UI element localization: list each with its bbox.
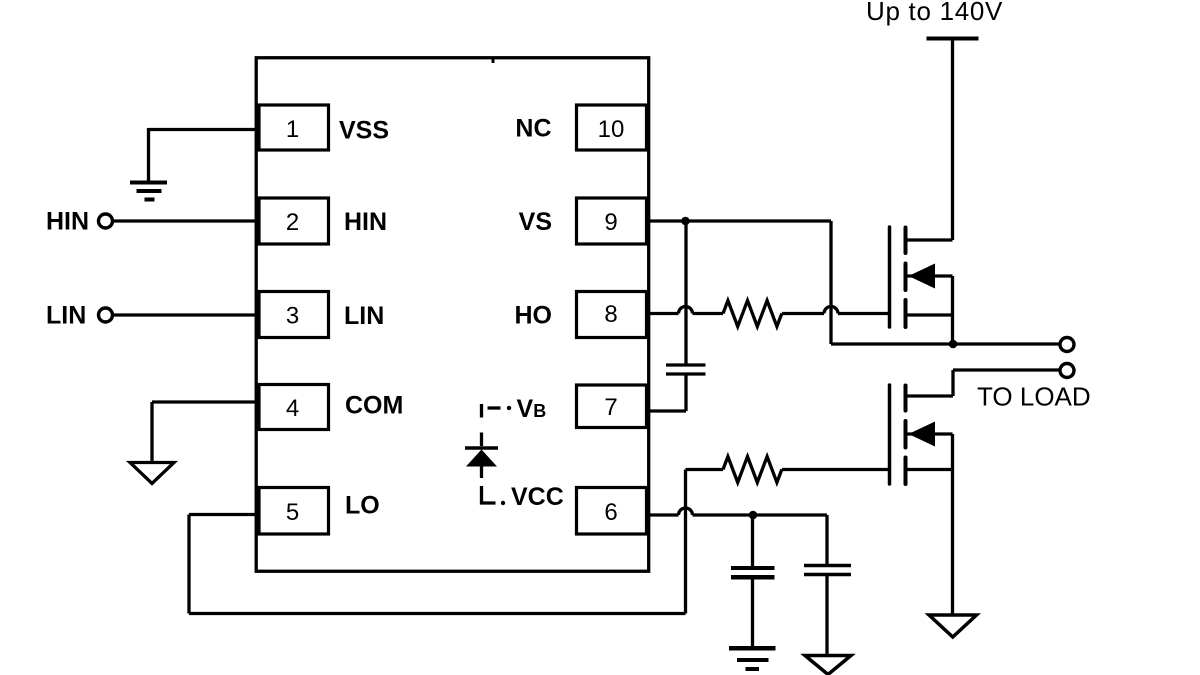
svg-text:LIN: LIN: [344, 302, 384, 330]
svg-text:3: 3: [286, 303, 299, 330]
svg-text:TO LOAD: TO LOAD: [977, 382, 1091, 412]
svg-text:9: 9: [604, 209, 617, 236]
svg-text:2: 2: [286, 209, 299, 236]
svg-text:VSS: VSS: [339, 117, 389, 145]
svg-text:8: 8: [604, 301, 617, 328]
svg-text:6: 6: [604, 499, 617, 526]
svg-text:HO: HO: [515, 302, 553, 330]
svg-text:COM: COM: [345, 392, 403, 420]
svg-text:HIN: HIN: [46, 208, 89, 236]
svg-text:10: 10: [598, 116, 625, 143]
svg-text:Up to 140V: Up to 140V: [866, 0, 1003, 26]
svg-text:VS: VS: [519, 208, 552, 236]
svg-text:HIN: HIN: [344, 208, 387, 236]
svg-text:4: 4: [286, 395, 299, 422]
svg-text:1: 1: [286, 116, 299, 143]
svg-text:VCC: VCC: [511, 483, 564, 511]
svg-text:5: 5: [286, 499, 299, 526]
svg-text:LO: LO: [345, 492, 380, 520]
svg-text:LIN: LIN: [46, 302, 86, 330]
svg-text:NC: NC: [515, 115, 551, 143]
svg-text:7: 7: [604, 394, 617, 421]
